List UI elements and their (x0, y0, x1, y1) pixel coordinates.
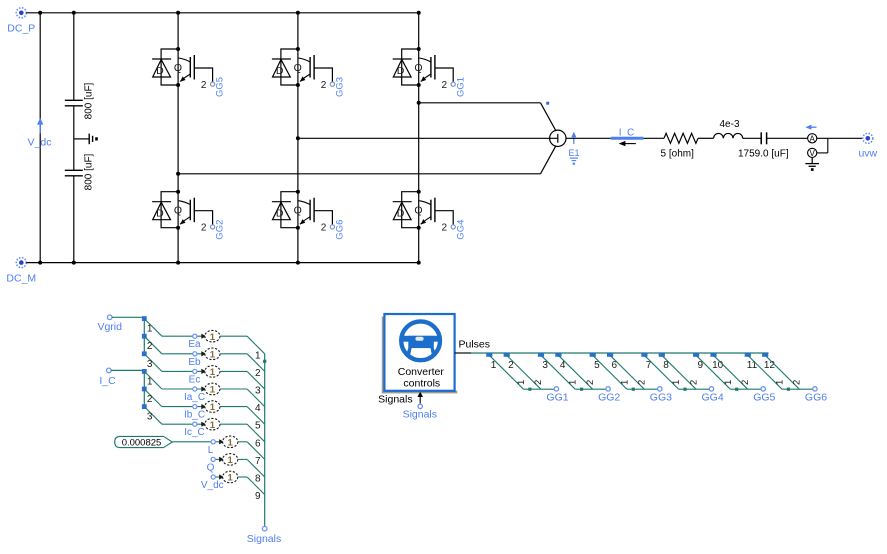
svg-text:7: 7 (255, 456, 261, 467)
svg-text:I_C: I_C (99, 375, 116, 387)
svg-text:2: 2 (201, 80, 207, 91)
wire row Q to merge tap 8 (238, 459, 265, 477)
svg-text:1: 1 (210, 420, 216, 431)
wire signal row Ea (162, 334, 206, 351)
label Pulses output (459, 338, 491, 350)
svg-text:Ec: Ec (189, 374, 201, 385)
breakout pulses pair 5,6 to GG3 (590, 353, 673, 403)
svg-text:GG5: GG5 (753, 392, 775, 404)
ammeter I_C (highlighted wire) (611, 127, 644, 146)
svg-text:800 [uF]: 800 [uF] (83, 82, 94, 119)
svg-text:8: 8 (255, 474, 261, 485)
meter block 1:1 for Ec (205, 366, 220, 378)
svg-text:9: 9 (255, 491, 261, 502)
svg-text:Q: Q (414, 205, 422, 217)
wire signal row Ic_C (162, 422, 206, 439)
wire row Ic_C to merge tap 6 (220, 424, 265, 442)
svg-text:2: 2 (442, 223, 448, 234)
svg-text:1: 1 (228, 455, 234, 466)
merge bus 9-to-1 (255, 350, 266, 526)
wire phase C output (leg1 to junction) (176, 146, 556, 176)
node Signals data label (403, 404, 437, 420)
node DC_P (7, 8, 35, 35)
svg-text:800 [uF]: 800 [uF] (83, 153, 94, 190)
svg-text:4e-3: 4e-3 (719, 119, 739, 130)
svg-text:1: 1 (255, 350, 261, 361)
svg-text:10: 10 (712, 360, 724, 371)
transistor GG4 (IGBT with anti-parallel diode) (393, 190, 467, 240)
svg-text:Ea: Ea (188, 339, 201, 350)
svg-text:GG6: GG6 (335, 220, 346, 240)
svg-text:GG3: GG3 (335, 77, 346, 97)
wire bottom DC rail (26, 262, 418, 264)
transistor GG2 (IGBT with anti-parallel diode) (152, 190, 226, 240)
transistor GG3 (IGBT with anti-parallel diode) (272, 47, 346, 97)
svg-text:Signals: Signals (247, 533, 281, 545)
svg-text:5: 5 (255, 421, 261, 432)
svg-text:D: D (156, 65, 164, 77)
wire phase B output (leg2 to junction) (296, 136, 558, 140)
wire signal row V_dc (201, 474, 224, 491)
wire inverter leg at x=297.9 (296, 11, 300, 265)
node Vgrid input terminal (97, 315, 122, 333)
meter block 1:1 for Q (223, 454, 238, 466)
svg-text:Q: Q (174, 62, 182, 74)
svg-text:GG5: GG5 (215, 77, 226, 97)
svg-text:4: 4 (255, 403, 261, 414)
svg-text:2: 2 (147, 394, 153, 405)
capacitor C2 800 uF (65, 153, 95, 190)
constant 0.000825 (115, 436, 173, 448)
breakout pulses pair 1,2 to GG1 (486, 353, 569, 403)
breakout pulses pair 3,4 to GG2 (538, 353, 621, 403)
svg-text:11: 11 (747, 360, 758, 371)
node DC_M (6, 258, 36, 285)
wire inductor to capacitor (743, 137, 761, 139)
voltmeter V (808, 138, 828, 158)
svg-text:GG4: GG4 (702, 392, 724, 404)
ground below voltmeter (805, 158, 819, 171)
wire I_C to resistor (643, 137, 664, 139)
svg-text:Pulses: Pulses (459, 338, 491, 350)
wire capacitor to ammeter (767, 137, 808, 139)
label Signals input (378, 392, 423, 406)
svg-text:1: 1 (210, 349, 216, 360)
svg-text:3: 3 (147, 359, 153, 370)
meter block 1:1 for L (223, 436, 238, 448)
svg-text:Ic_C: Ic_C (184, 427, 205, 438)
svg-text:2: 2 (147, 341, 153, 352)
voltmeter E1 (568, 132, 579, 165)
wire ammeter to uvw (817, 137, 863, 139)
svg-text:1: 1 (147, 324, 153, 335)
svg-text:2: 2 (321, 223, 327, 234)
svg-text:1: 1 (516, 380, 527, 385)
svg-text:Ib_C: Ib_C (184, 410, 205, 421)
svg-text:Q: Q (207, 462, 215, 473)
svg-text:1: 1 (723, 380, 734, 385)
transistor GG6 (IGBT with anti-parallel diode) (272, 190, 346, 240)
svg-text:2: 2 (321, 80, 327, 91)
svg-text:Vgrid: Vgrid (97, 321, 122, 333)
svg-text:DC_P: DC_P (7, 23, 35, 35)
voltmeter V_dc (28, 118, 52, 149)
svg-text:L: L (208, 445, 214, 456)
svg-text:12: 12 (764, 360, 776, 371)
svg-text:6: 6 (255, 438, 261, 449)
svg-text:1759.0 [uF]: 1759.0 [uF] (738, 148, 789, 159)
svg-text:2: 2 (740, 380, 751, 385)
svg-text:GG2: GG2 (215, 220, 226, 240)
breakout pulses pair 11,12 to GG6 (745, 353, 828, 403)
svg-text:2: 2 (255, 368, 261, 379)
converter controls block shadow (382, 317, 457, 394)
svg-text:DC_M: DC_M (6, 272, 36, 284)
svg-text:3: 3 (255, 386, 261, 397)
wire resistor to inductor (698, 137, 714, 139)
capacitor 1759.0 uF (738, 132, 789, 159)
svg-text:controls: controls (403, 378, 440, 390)
svg-text:2: 2 (637, 380, 648, 385)
wire Vgrid to breakout (112, 316, 144, 318)
wire row V_dc to merge tap 9 (238, 477, 265, 495)
converter controls block U1 (384, 314, 454, 391)
svg-text:D: D (276, 65, 284, 77)
svg-text:1: 1 (210, 402, 216, 413)
node uvw (858, 133, 877, 159)
svg-text:5 [ohm]: 5 [ohm] (661, 148, 695, 159)
meter block 1:1 for Eb (205, 348, 220, 360)
svg-text:1: 1 (775, 380, 786, 385)
wire row Eb to merge tap 2 (220, 354, 265, 372)
svg-text:V: V (810, 149, 816, 158)
wire row Ea to merge tap 1 (220, 336, 265, 354)
svg-text:0.000825: 0.000825 (122, 437, 162, 448)
capacitor C1 800 uF (65, 82, 95, 119)
ammeter A (805, 125, 816, 144)
svg-text:1: 1 (619, 380, 630, 385)
svg-text:D: D (397, 65, 405, 77)
wire signal row Eb (162, 351, 206, 368)
svg-text:2: 2 (442, 80, 448, 91)
svg-text:2: 2 (585, 380, 596, 385)
meter block 1:1 for Ia_C (205, 383, 220, 395)
svg-text:Eb: Eb (188, 357, 201, 368)
transistor GG1 (IGBT with anti-parallel diode) (393, 47, 467, 97)
svg-text:Ia_C: Ia_C (184, 392, 205, 403)
svg-text:GG3: GG3 (650, 392, 672, 404)
svg-text:Q: Q (294, 205, 302, 217)
wire Pulses bus (455, 352, 769, 354)
svg-text:1: 1 (210, 385, 216, 396)
meter block 1:1 for V_dc (223, 471, 238, 483)
node Signals output terminal (247, 526, 281, 545)
svg-text:1: 1 (568, 380, 579, 385)
svg-text:GG2: GG2 (598, 392, 620, 404)
breakout pulses pair 9,10 to GG5 (693, 353, 776, 403)
svg-text:I_C: I_C (619, 127, 635, 138)
svg-text:V_dc: V_dc (201, 480, 224, 491)
wire row Ec to merge tap 3 (220, 371, 265, 389)
svg-text:2: 2 (792, 380, 803, 385)
breakout Vgrid 3-wire (142, 316, 162, 371)
wire row L to merge tap 7 (238, 442, 265, 460)
svg-text:A: A (810, 135, 816, 144)
svg-text:2: 2 (533, 380, 544, 385)
svg-text:uvw: uvw (858, 148, 877, 160)
svg-text:1: 1 (210, 367, 216, 378)
wire signal row L (172, 439, 224, 456)
wire row Ia_C to merge tap 4 (220, 389, 265, 407)
wire row Ib_C to merge tap 5 (220, 407, 265, 425)
node 3-phase junction circle (550, 130, 566, 146)
wire inverter leg at x=418.7 (417, 11, 421, 265)
wire signal row Ib_C (162, 404, 206, 421)
transistor GG5 (IGBT with anti-parallel diode) (152, 47, 226, 97)
svg-text:D: D (276, 208, 284, 220)
wire inverter leg at x=178.1 (176, 11, 180, 265)
wire phase A output (leg3 to junction) (417, 101, 556, 131)
svg-text:GG6: GG6 (805, 392, 827, 404)
svg-text:2: 2 (688, 380, 699, 385)
svg-text:Q: Q (414, 62, 422, 74)
svg-text:1: 1 (671, 380, 682, 385)
svg-text:1: 1 (228, 473, 234, 484)
svg-text:1: 1 (147, 376, 153, 387)
svg-text:GG1: GG1 (546, 392, 568, 404)
svg-text:D: D (156, 208, 164, 220)
meter block 1:1 for Ib_C (205, 401, 220, 413)
breakout pulses pair 7,8 to GG4 (641, 353, 724, 403)
svg-text:V_dc: V_dc (28, 137, 52, 149)
svg-text:GG4: GG4 (455, 220, 466, 240)
wire DC-link capacitor branch (72, 11, 76, 265)
svg-text:2: 2 (201, 223, 207, 234)
svg-text:3: 3 (147, 412, 153, 423)
wire junction to I_C segment (566, 137, 611, 139)
svg-text:1: 1 (228, 437, 234, 448)
svg-text:E1: E1 (568, 148, 579, 158)
wire top DC rail (26, 12, 418, 14)
wire V_dc sense branch (38, 11, 42, 265)
wire I_C to breakout (111, 369, 144, 371)
inductor 4e-3 (714, 119, 743, 138)
wire endpoint marker (546, 102, 549, 105)
resistor 5 ohm (661, 133, 698, 159)
svg-text:Q: Q (294, 62, 302, 74)
svg-text:Converter: Converter (398, 366, 445, 378)
svg-text:D: D (397, 208, 405, 220)
svg-text:Signals: Signals (378, 394, 412, 406)
svg-text:Signals: Signals (403, 408, 437, 420)
wire signal row Q (207, 457, 224, 474)
svg-text:GG1: GG1 (455, 77, 466, 97)
wire signal row Ia_C (162, 386, 206, 403)
node I_C input terminal (99, 368, 116, 387)
ground midpoint of DC-link (74, 134, 98, 145)
meter block 1:1 for Ic_C (205, 418, 220, 430)
breakout I_C 3-wire (142, 369, 162, 424)
meter block 1:1 for Ea (205, 330, 220, 342)
svg-text:Q: Q (174, 205, 182, 217)
wire signal row Ec (162, 369, 206, 386)
svg-text:1: 1 (210, 332, 216, 343)
